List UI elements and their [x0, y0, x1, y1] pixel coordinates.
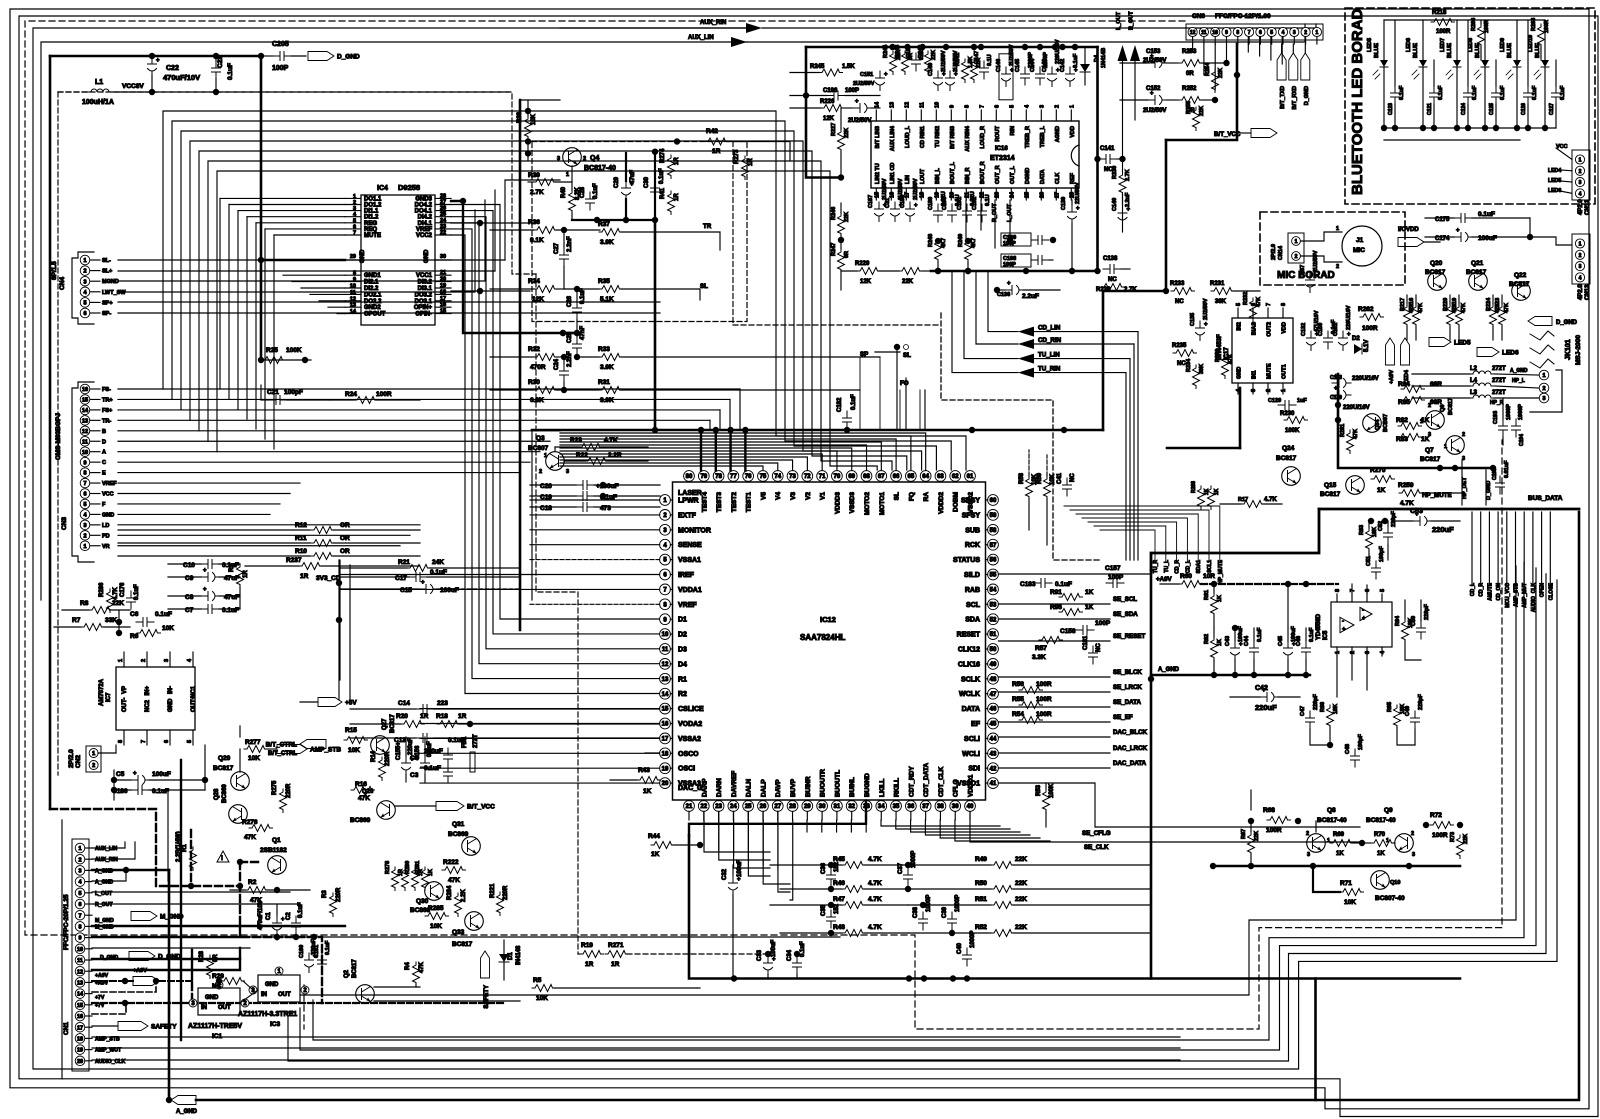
pin IC12-43 WCLI — [988, 748, 999, 759]
svg-text:3: 3 — [1579, 264, 1582, 270]
svg-text:R46: R46 — [833, 880, 845, 887]
svg-text:LED6: LED6 — [1548, 188, 1561, 194]
capacitor C205 — [273, 52, 291, 61]
pin CN4-5 SP+ — [80, 298, 90, 308]
pin CN3-16 FS- — [80, 384, 90, 394]
pin IC12-8 VREF — [660, 599, 671, 610]
svg-text:VSSA1: VSSA1 — [678, 557, 701, 564]
capacitor C186 0.1uF — [131, 786, 149, 795]
svg-text:L3: L3 — [1470, 390, 1478, 396]
svg-text:100R: 100R — [376, 391, 392, 398]
svg-text:1000P: 1000P — [1518, 404, 1524, 420]
svg-text:REG: REG — [364, 221, 377, 227]
svg-text:IN2: IN2 — [1237, 322, 1243, 331]
wire IC4 left lower net — [337, 313, 345, 315]
svg-text:R70: R70 — [1374, 832, 1386, 838]
capacitor C191 0.22U — [963, 204, 972, 222]
svg-text:B/T_VCC: B/T_VCC — [467, 804, 495, 811]
svg-text:223: 223 — [437, 700, 448, 707]
svg-text:R230: R230 — [1280, 411, 1295, 417]
svg-text:1: 1 — [1542, 373, 1545, 379]
capacitor C153 2U2/50V — [1148, 59, 1167, 68]
svg-text:AMP_STB: AMP_STB — [1514, 583, 1520, 607]
capacitor C53 220uF — [1413, 517, 1432, 526]
svg-text:22K: 22K — [1015, 924, 1027, 931]
wire CN1 R_OUT net — [92, 903, 300, 905]
svg-text:74: 74 — [774, 474, 781, 480]
resistor R239 2.7K — [1119, 172, 1126, 196]
resistor R245 1.5K — [819, 69, 843, 76]
svg-text:OUT: OUT — [278, 992, 291, 998]
svg-text:VDDD3: VDDD3 — [834, 492, 841, 514]
resistor R276 47K — [249, 825, 273, 832]
svg-text:2: 2 — [1428, 403, 1431, 409]
svg-text:SE_EF: SE_EF — [1113, 714, 1133, 721]
wire CN4 SP+ net — [118, 301, 660, 303]
pin IC12-32 BUINL — [846, 801, 857, 812]
transistor Q27 BC817 — [371, 736, 390, 755]
svg-text:SE_SCL: SE_SCL — [1113, 596, 1137, 603]
svg-text:0.1uF: 0.1uF — [1500, 85, 1506, 100]
svg-text:220U/16V: 220U/16V — [1343, 405, 1370, 411]
svg-text:R271: R271 — [608, 942, 624, 949]
svg-text:R219: R219 — [1452, 298, 1458, 311]
pin IC12-49 CLK16 — [988, 659, 999, 670]
svg-text:DATA: DATA — [1040, 170, 1046, 184]
svg-text:R243: R243 — [895, 45, 901, 58]
svg-text:2: 2 — [1462, 432, 1465, 438]
svg-text:+: + — [203, 587, 207, 593]
capacitor C159 0.1uF — [1324, 331, 1333, 349]
pin CN13-3 — [1575, 262, 1584, 271]
svg-text:DARN: DARN — [716, 778, 723, 797]
svg-text:47nF: 47nF — [580, 326, 586, 340]
svg-text:14: 14 — [350, 309, 357, 315]
resistor R59 10K — [1044, 476, 1051, 500]
pin CN3-15 TR+ — [80, 395, 90, 405]
svg-text:1K: 1K — [1085, 589, 1094, 596]
svg-text:10K: 10K — [1344, 899, 1356, 906]
svg-text:Q6: Q6 — [1440, 405, 1446, 412]
svg-text:47K: 47K — [250, 897, 262, 904]
svg-text:LKILL: LKILL — [879, 779, 886, 797]
svg-text:5: 5 — [1236, 303, 1242, 306]
resistor R233 NC — [1171, 288, 1195, 295]
svg-text:16: 16 — [440, 302, 446, 308]
resistor R270 1K — [1371, 476, 1395, 483]
wire dashed L1 left vertical — [57, 92, 59, 775]
diode D4 1N4148 — [1080, 64, 1090, 72]
svg-text:+: + — [281, 917, 285, 923]
capacitor C160 220uF — [305, 953, 314, 973]
capacitor C44 0.1uF — [1250, 641, 1259, 659]
svg-text:NC: NC — [1177, 361, 1186, 367]
svg-text:20: 20 — [77, 1059, 83, 1065]
svg-text:4: 4 — [1282, 30, 1285, 36]
svg-text:GND: GND — [424, 249, 430, 263]
resistor R263 100R — [1538, 24, 1545, 48]
resistor R71 10K — [1340, 889, 1364, 896]
svg-text:R11: R11 — [295, 535, 307, 542]
svg-text:TR: TR — [703, 223, 712, 230]
svg-text:100R: 100R — [1036, 681, 1052, 688]
svg-text:16: 16 — [889, 192, 895, 198]
wire C174 to CN13 — [1529, 218, 1531, 237]
wire bus loop B (AUX_LIN) — [41, 42, 747, 600]
svg-text:+: + — [1456, 228, 1460, 234]
svg-text:C28: C28 — [580, 186, 586, 198]
resistor R237 — [299, 563, 323, 570]
svg-text:R62: R62 — [1204, 634, 1210, 644]
resistor R9 1R — [237, 564, 244, 588]
capacitor C6 0.1uF — [136, 618, 154, 627]
wire CN4 SL- net — [118, 259, 505, 261]
svg-text:AGND: AGND — [1055, 126, 1061, 142]
svg-text:C139: C139 — [1061, 197, 1067, 210]
svg-text:Q20: Q20 — [1430, 260, 1443, 267]
svg-text:3: 3 — [1307, 852, 1310, 858]
pin IC5-3 — [1366, 647, 1368, 656]
svg-text:D4: D4 — [1094, 54, 1100, 62]
svg-text:AM7072A: AM7072A — [99, 678, 105, 706]
svg-text:C124: C124 — [1461, 103, 1467, 115]
svg-text:DAC_G: DAC_G — [678, 785, 703, 792]
svg-text:BIN_R: BIN_R — [965, 167, 971, 184]
capacitor C137 2U2/50V — [1306, 273, 1315, 293]
capacitor C30 0.1uF — [651, 181, 660, 199]
svg-text:C192: C192 — [972, 197, 978, 210]
capacitor C18 473 — [576, 503, 594, 512]
resistor R44 1K — [651, 842, 675, 849]
svg-text:13: 13 — [350, 303, 356, 309]
svg-text:63: 63 — [937, 474, 944, 480]
pin IC4-30 GND — [435, 259, 451, 261]
svg-text:NC: NC — [1096, 643, 1102, 652]
svg-text:1.5K: 1.5K — [842, 64, 855, 70]
pin IC1-1 — [215, 981, 223, 989]
capacitor C50 220pF — [1417, 621, 1426, 639]
wire Q4 thick bottom — [572, 219, 655, 221]
resistor R51 22K — [991, 902, 1015, 909]
pin IC12-30 BUOUTR — [817, 801, 828, 812]
svg-text:R41: R41 — [660, 187, 666, 199]
resistor R34 12K — [534, 286, 558, 293]
svg-text:R59: R59 — [1037, 472, 1043, 484]
svg-text:2U2/50V: 2U2/50V — [1313, 250, 1319, 272]
svg-text:SP-: SP- — [102, 311, 111, 317]
wire IC16 pin nets to CD_LIN — [965, 200, 967, 240]
svg-text:MSJ-2000: MSJ-2000 — [1575, 335, 1582, 365]
svg-text:C36: C36 — [821, 862, 827, 874]
capacitor C19 0.1uF — [576, 492, 594, 501]
pin CN1-6 R_OUT — [75, 899, 85, 909]
resistor R39 2.7K — [533, 179, 557, 186]
svg-text:C44: C44 — [1244, 635, 1250, 646]
svg-text:BC817: BC817 — [1425, 269, 1446, 276]
svg-text:1: 1 — [1579, 242, 1582, 248]
svg-text:R18: R18 — [436, 713, 448, 720]
svg-text:100R: 100R — [1544, 20, 1550, 33]
svg-text:12: 12 — [350, 296, 356, 302]
svg-text:+: + — [156, 58, 160, 64]
connector CN14 body — [1288, 233, 1304, 263]
pin CN1-11 nc — [75, 955, 85, 965]
svg-text:15: 15 — [440, 309, 446, 315]
svg-text:100R: 100R — [1432, 832, 1448, 839]
connector CN3 body — [72, 382, 94, 562]
resistor R82 1K — [1398, 423, 1422, 430]
tag B/T_TXD — [1277, 53, 1286, 80]
wire IC12 top pin net — [560, 457, 807, 471]
svg-text:CDT_CLK: CDT_CLK — [938, 766, 945, 797]
capacitor C28 0.1uF — [586, 192, 595, 210]
svg-text:MCU_VCC: MCU_VCC — [1505, 583, 1511, 608]
svg-text:47: 47 — [990, 692, 997, 698]
svg-text:C37: C37 — [898, 862, 904, 874]
pin IC5-4 — [1381, 647, 1383, 656]
pin IC12-79 TEST4 — [698, 471, 709, 482]
svg-text:1K: 1K — [643, 788, 652, 795]
svg-text:24: 24 — [730, 804, 737, 810]
svg-text:Q34: Q34 — [1375, 419, 1381, 430]
svg-text:OPEN: OPEN — [1540, 583, 1546, 598]
svg-text:LED6: LED6 — [1502, 350, 1519, 357]
svg-text:R222: R222 — [443, 859, 459, 866]
svg-text:473: 473 — [600, 505, 611, 512]
resistor R286 4.7K — [107, 589, 114, 613]
svg-text:GND: GND — [102, 512, 114, 518]
svg-text:TREB_R: TREB_R — [1025, 126, 1031, 148]
svg-text:R52: R52 — [975, 924, 987, 931]
resistor R42 1R — [705, 138, 729, 145]
pin IC12-14 R2 — [660, 688, 671, 699]
wire IC12 top pin net — [560, 436, 911, 471]
svg-text:BUVP: BUVP — [790, 778, 797, 797]
svg-text:-: - — [1342, 619, 1344, 625]
svg-text:73: 73 — [789, 474, 796, 480]
svg-text:DOBM: DOBM — [953, 492, 960, 512]
pin IC4-5 REG — [345, 222, 361, 224]
svg-text:R32: R32 — [528, 346, 540, 353]
pin IC12-4 SENSE — [660, 539, 671, 550]
resistor R11 OR — [118, 542, 310, 544]
wire CN1 pin11 thick — [92, 958, 240, 960]
svg-text:1: 1 — [1420, 419, 1423, 425]
resistor R12 OR — [118, 529, 310, 531]
svg-text:IC12: IC12 — [820, 615, 836, 624]
wire top right run — [762, 24, 1316, 28]
wire bus loop F — [61, 820, 63, 1079]
svg-text:36: 36 — [908, 804, 915, 810]
resistor R240 22K — [971, 59, 978, 83]
resistor R230 100K — [1284, 417, 1308, 424]
svg-text:+: + — [1362, 616, 1366, 622]
resistor R68 100R — [1267, 817, 1291, 824]
svg-text:2.2R(1/4W): 2.2R(1/4W) — [176, 831, 182, 862]
pin CN3-6 VCC — [80, 489, 90, 499]
svg-text:R285: R285 — [428, 905, 444, 912]
svg-text:DO4.2: DO4.2 — [415, 203, 433, 209]
svg-text:CN14: CN14 — [1278, 245, 1284, 260]
svg-text:22K: 22K — [844, 128, 850, 138]
arrow TU_LIN — [1018, 354, 1034, 364]
svg-text:0.1uF: 0.1uF — [1472, 85, 1478, 100]
svg-text:12: 12 — [904, 102, 910, 108]
wire CN4 SL+ net — [118, 270, 495, 272]
wire IC12 top pin net — [560, 439, 896, 471]
LED LED7 BLUE — [1456, 20, 1458, 60]
svg-text:TU RIN2: TU RIN2 — [935, 126, 941, 147]
svg-text:SAFETY: SAFETY — [151, 1024, 177, 1031]
pin IC4-29 GND — [345, 259, 361, 261]
wire CD data bundle 4 — [190, 141, 922, 470]
svg-text:15: 15 — [874, 192, 880, 198]
jack contact 2 — [1530, 345, 1554, 354]
svg-text:DO1.2: DO1.2 — [364, 203, 382, 209]
svg-text:C138: C138 — [1103, 256, 1118, 262]
svg-text:35: 35 — [893, 804, 900, 810]
svg-text:100P: 100P — [845, 88, 859, 94]
wire DI4.1 junction — [477, 220, 483, 226]
wire CN4 MGND net — [118, 200, 485, 281]
svg-text:4.7K: 4.7K — [868, 896, 882, 903]
svg-text:6: 6 — [83, 492, 86, 498]
svg-text:OUT: OUT — [218, 1005, 231, 1011]
wire OSCO stub — [645, 752, 660, 754]
pin IC12-38 CDT_CLK — [935, 801, 946, 812]
pin IC7-1 VP — [123, 652, 125, 667]
svg-text:C182: C182 — [837, 397, 843, 412]
svg-text:VDD: VDD — [1282, 322, 1288, 334]
capacitor C175 0.1uF — [1454, 214, 1472, 223]
svg-text:2: 2 — [83, 269, 86, 275]
pin IC16-21 BIN_R — [965, 188, 967, 200]
svg-text:SE_CLK: SE_CLK — [1084, 844, 1109, 851]
svg-text:Q4: Q4 — [590, 155, 599, 162]
pin CN12-4 — [1575, 189, 1584, 198]
svg-text:R274: R274 — [660, 148, 666, 163]
svg-text:SDI: SDI — [968, 766, 980, 773]
wire dashed spur to C33 — [303, 985, 305, 1029]
wire CN3 VREF net — [118, 482, 300, 484]
capacitor C138 NC — [1103, 265, 1121, 274]
svg-text:VREF: VREF — [678, 602, 697, 609]
capacitor C42 220uF — [1260, 693, 1279, 702]
svg-text:C5: C5 — [116, 771, 125, 778]
svg-text:R37: R37 — [598, 221, 610, 228]
wire CD data bundle 5 — [199, 151, 907, 470]
svg-text:LED4: LED4 — [1548, 168, 1561, 174]
svg-text:62: 62 — [952, 474, 959, 480]
resistor R247 0R — [838, 249, 845, 273]
transistor Q7 BC817 — [1446, 436, 1465, 455]
wire IC4 left net — [265, 228, 345, 230]
svg-text:B/T_CTRL: B/T_CTRL — [266, 742, 297, 749]
svg-text:R2: R2 — [248, 879, 257, 886]
wire jack nets — [1494, 374, 1539, 375]
wire amp dashed mesh 1 — [50, 809, 240, 886]
pin IC17-8 VDD — [1282, 308, 1284, 318]
svg-text:IC5: IC5 — [1323, 630, 1329, 640]
resistor R220 47K — [1447, 304, 1454, 328]
svg-text:11: 11 — [350, 290, 356, 296]
capacitor C198 100P box — [1001, 254, 1031, 267]
pin CN1-20 AUDIO_CLK — [75, 1056, 85, 1066]
pin IC12-21 pin — [684, 801, 695, 812]
svg-text:+A9V: +A9V — [1389, 370, 1395, 384]
svg-text:C25: C25 — [567, 331, 573, 343]
pin IC16-1 VDD — [1070, 110, 1072, 121]
svg-text:26: 26 — [760, 804, 767, 810]
svg-text:27: 27 — [440, 200, 446, 206]
connector CN6 body — [1186, 24, 1323, 40]
svg-text:0.1uF: 0.1uF — [227, 63, 234, 80]
svg-text:V3: V3 — [790, 492, 797, 500]
svg-text:14: 14 — [874, 101, 880, 108]
svg-text:220U/16V: 220U/16V — [1352, 376, 1379, 382]
resistor R33 3.9K — [599, 354, 623, 361]
svg-text:152: 152 — [834, 903, 840, 914]
svg-text:13: 13 — [82, 418, 88, 424]
resistor R17 4.7K — [1241, 501, 1265, 508]
svg-text:C23: C23 — [217, 56, 224, 68]
svg-text:TR+: TR+ — [102, 397, 113, 403]
svg-text:SAA7824HL: SAA7824HL — [800, 633, 845, 642]
pin IC5-2 — [1351, 647, 1353, 656]
svg-text:70: 70 — [834, 474, 841, 480]
svg-text:470R: 470R — [530, 364, 546, 371]
svg-text:BLUE: BLUE — [1507, 43, 1513, 58]
svg-text:C2: C2 — [286, 912, 292, 920]
pin IC5-6 — [1366, 594, 1368, 602]
svg-text:10K: 10K — [348, 747, 360, 754]
pin IC16-3 TREB_L — [1040, 110, 1042, 121]
svg-text:C159: C159 — [1318, 323, 1324, 336]
pin CN12-2 — [1575, 166, 1584, 175]
wire A_GND rail IC5 — [1151, 674, 1310, 676]
svg-text:BC817-40: BC817-40 — [1317, 817, 1347, 824]
svg-text:CDT_DATA: CDT_DATA — [923, 763, 930, 797]
wire CN3 E net — [118, 472, 520, 474]
wire thick audio rail — [931, 270, 1098, 273]
svg-text:R8: R8 — [80, 600, 89, 607]
pin CN3-8 E — [80, 468, 90, 478]
resistor R56 100R — [1019, 687, 1043, 694]
svg-text:Q29: Q29 — [218, 755, 231, 762]
svg-text:C49: C49 — [1405, 706, 1411, 716]
svg-text:8: 8 — [1236, 30, 1239, 36]
svg-text:C125: C125 — [1489, 103, 1495, 115]
svg-text:+A9V: +A9V — [133, 968, 147, 974]
LED LED9 BLUE — [1516, 20, 1518, 60]
pin IC16-26 DATA — [1040, 188, 1042, 200]
svg-text:R14: R14 — [371, 750, 377, 762]
svg-text:FQ: FQ — [908, 492, 915, 501]
svg-text:C195: C195 — [1492, 468, 1498, 480]
svg-text:10K: 10K — [536, 995, 548, 1002]
svg-text:1K: 1K — [1217, 595, 1223, 602]
svg-text:2: 2 — [353, 200, 356, 206]
svg-text:38: 38 — [937, 804, 944, 810]
wire CN3 F net — [118, 503, 280, 505]
capacitor C147 0.1U — [980, 61, 989, 79]
wire IC12 top pin net — [560, 442, 881, 471]
svg-text:VREF: VREF — [102, 481, 117, 487]
svg-text:8: 8 — [964, 105, 970, 108]
svg-text:100uH/1A: 100uH/1A — [82, 99, 114, 106]
svg-text:2: 2 — [141, 659, 147, 662]
svg-text:R220: R220 — [1443, 298, 1449, 311]
